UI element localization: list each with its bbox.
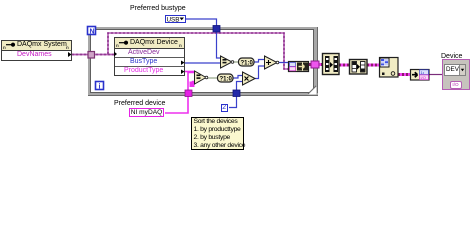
svg-text:?1:0: ?1:0: [220, 77, 233, 83]
svg-text:n: n: [116, 43, 119, 48]
svg-text:N: N: [90, 29, 95, 36]
svg-text:i: i: [99, 84, 101, 91]
svg-text:?1:0: ?1:0: [241, 61, 254, 67]
svg-text:I/O: I/O: [421, 75, 426, 80]
svg-text:n: n: [179, 43, 182, 48]
svg-text:n: n: [66, 45, 69, 50]
svg-text:USB: USB: [167, 16, 180, 23]
svg-text:n: n: [3, 45, 6, 50]
